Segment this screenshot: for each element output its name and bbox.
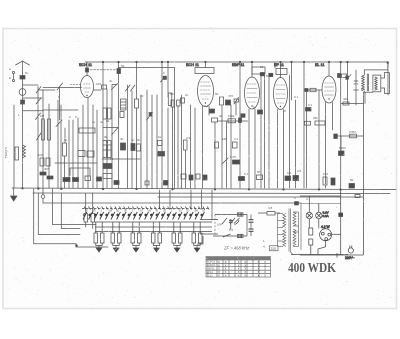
junction dots top bus (102, 61, 104, 63)
wire V5 riser (328, 62, 330, 76)
capacitor on riser (117, 69, 121, 74)
power section (300, 189, 363, 260)
resistor 400 near bus (338, 74, 341, 78)
wire (111, 85, 113, 188)
speaker cone (381, 73, 390, 94)
wire third lower bus (158, 196, 363, 198)
bottom row capacitor a (239, 177, 245, 181)
capacitor small (120, 112, 124, 118)
capacitor feedback (334, 134, 338, 139)
capacitor V3 right top b (269, 73, 273, 76)
wire across input (38, 89, 55, 91)
svg-text:40: 40 (120, 137, 124, 141)
blob bottom (97, 177, 102, 181)
svg-text:EBF 11: EBF 11 (232, 63, 244, 67)
resistor PS b (309, 239, 313, 245)
trafo primary winding (283, 214, 286, 247)
node terminal E (12, 79, 14, 81)
blob at switch top (163, 76, 166, 79)
svg-text:1,5: 1,5 (229, 228, 234, 232)
svg-text:220V~: 220V~ (345, 256, 354, 260)
svg-text:S-1051a: S-1051a (4, 147, 8, 159)
switch contact mid-left (56, 120, 62, 127)
svg-text:4.2 W: 4.2 W (321, 225, 330, 229)
svg-text:x: x (225, 274, 227, 278)
dial lamp (41, 195, 45, 199)
wire trafo to bottom bus (290, 252, 293, 255)
wire left stub L (197, 236, 203, 244)
bottom-left routing wires (34, 189, 108, 247)
svg-text:1M: 1M (222, 137, 227, 141)
wire right verticals (340, 62, 342, 189)
svg-text:1M: 1M (147, 209, 151, 213)
svg-text:4,: 4, (263, 245, 266, 249)
wire heater line (341, 103, 363, 105)
tube V2 internals (201, 82, 211, 99)
capacitor 50uF electrolytic (349, 184, 355, 189)
wire (177, 106, 179, 188)
svg-text:0.1: 0.1 (308, 103, 313, 107)
svg-text:x: x (218, 274, 220, 278)
resistor 100k horizontal (228, 119, 236, 123)
wire cluster verticals left tuning (64, 128, 66, 143)
wire bank rail 4 (95, 231, 212, 233)
tube V1 internals (84, 84, 91, 92)
svg-text:2n: 2n (185, 93, 189, 97)
voltage table (206, 257, 271, 278)
resistor R input a (42, 119, 45, 140)
bottom row capacitor b (285, 176, 291, 181)
capacitor 0.05 (233, 160, 240, 164)
tone capacitor column (355, 70, 357, 105)
mains plug Netz (348, 248, 353, 253)
coil box pair upper mid-left (103, 108, 107, 119)
switch contact near V5 (347, 75, 352, 80)
svg-text:0.5M: 0.5M (349, 130, 356, 134)
wire (48, 104, 50, 188)
capacitor coupling (305, 89, 308, 92)
wire screen line (218, 120, 248, 122)
wire V2 anode riser (205, 62, 207, 68)
svg-text:60: 60 (215, 92, 219, 96)
capacitor IF a (249, 219, 254, 221)
wire transformer top (364, 63, 388, 75)
resistor 4.8 (267, 212, 275, 216)
wire bottom PS bus (300, 254, 363, 256)
svg-text:3k: 3k (104, 135, 108, 139)
switch in IF box a (234, 218, 240, 224)
wire right bus drop to speaker (387, 62, 389, 95)
capacitor trimmer row left (79, 128, 95, 133)
svg-text:150: 150 (323, 172, 328, 176)
resistor R input b (48, 119, 51, 140)
grid box above V4 (276, 69, 287, 75)
svg-text:EL 11: EL 11 (315, 63, 325, 67)
svg-text:x: x (264, 274, 266, 278)
svg-text:EBF11: EBF11 (207, 267, 215, 271)
svg-text:600: 600 (38, 153, 43, 157)
coil groups below switch (94, 222, 202, 252)
svg-text:30: 30 (140, 94, 144, 98)
wire (161, 62, 163, 188)
svg-text:400: 400 (343, 97, 348, 101)
trafo core (288, 209, 290, 252)
switch contacts row (83, 212, 204, 220)
svg-text:ECH 11: ECH 11 (79, 63, 92, 67)
ground symbol main (13, 188, 15, 196)
svg-text:510: 510 (170, 92, 175, 96)
svg-text:LS: LS (361, 87, 365, 91)
wire taps right (293, 211, 299, 213)
wire V2 pins (202, 106, 204, 188)
scan speckle noise (5, 30, 395, 308)
switch diagonal left (37, 133, 42, 140)
svg-text:4x: 4x (100, 120, 104, 124)
svg-text:EL11: EL11 (207, 273, 213, 277)
svg-text:50: 50 (110, 157, 114, 161)
wire (214, 122, 216, 188)
top supply bus (85, 61, 388, 63)
capacitor 5000 (339, 151, 345, 156)
wire (118, 62, 120, 188)
svg-text:8n: 8n (137, 138, 141, 142)
svg-text:50: 50 (266, 74, 270, 78)
node bus right (387, 62, 389, 64)
junction dots on ground bus (22, 188, 24, 190)
coil L2 box (15, 147, 19, 160)
bottom row extra blobs (114, 181, 119, 185)
wire IF bottom (213, 235, 247, 237)
wire trafo taps left (278, 213, 284, 215)
wire rect tube down (318, 241, 326, 255)
resistor 30 left of bank (84, 214, 88, 223)
svg-text:0.05: 0.05 (230, 155, 236, 159)
wire (221, 106, 223, 188)
resistor 510 (168, 93, 172, 106)
svg-text:x: x (238, 274, 240, 278)
capacitor pair (177, 100, 181, 106)
wire (318, 90, 320, 188)
wire horizontal left low (55, 162, 97, 164)
node terminal A (12, 71, 14, 73)
wire (239, 62, 241, 188)
resistor IF a (220, 97, 224, 105)
resistor vertical mid (184, 140, 188, 150)
wire second lower bus (33, 192, 390, 195)
resistor mid vertical 1 (215, 142, 219, 148)
wire (167, 62, 169, 97)
svg-text:ECH11: ECH11 (207, 263, 216, 267)
capacitor wide b (103, 174, 112, 179)
wire antenna to switch (23, 84, 39, 86)
trimmer C variable (112, 84, 118, 90)
wire power top rail (300, 195, 341, 197)
trafo secondary winding (293, 212, 296, 246)
wire (85, 193, 87, 214)
antenna coil L1 (19, 89, 26, 96)
switch contact third (36, 113, 41, 120)
wire IF top (215, 214, 247, 216)
wire lamp feeds (308, 196, 310, 212)
resistor 0.5M (350, 134, 357, 138)
wire secondary rail (298, 212, 300, 247)
resistor grid stopper (310, 88, 316, 91)
speaker LS coil (373, 75, 381, 92)
svg-text:A: A (9, 67, 11, 71)
wire (64, 156, 66, 188)
wire jumper bracket (70, 168, 90, 176)
coil box pair lower mid-left with hatch (103, 141, 107, 158)
wire input horizontals (23, 97, 43, 99)
resistor 50 bottom (85, 176, 91, 181)
svg-text:5n: 5n (25, 71, 29, 75)
capacitor bottom-left pair 2 (47, 176, 53, 179)
lamp P2 (316, 212, 322, 218)
wire feedback line (335, 135, 363, 137)
capacitor 4uF (295, 202, 299, 206)
capacitor 470 (226, 100, 231, 105)
wire (230, 105, 232, 188)
svg-text:EF11: EF11 (207, 270, 214, 274)
wire (59, 87, 61, 121)
svg-text:ZF = 468 kHz: ZF = 468 kHz (223, 246, 250, 251)
wire heater rail long (43, 198, 301, 203)
switch S1 contact (36, 87, 41, 94)
wire AVC extension L (119, 68, 175, 190)
small box mid (158, 141, 163, 146)
svg-text:E: E (9, 76, 11, 80)
wire V4 pins (277, 110, 279, 189)
wire IF left boundary (214, 215, 216, 237)
node bottom-left (76, 245, 78, 247)
tiny annotation smudge texts (4, 64, 365, 213)
resistor hatched top (238, 213, 244, 216)
aux contact right of bank (222, 218, 227, 224)
bottom row resistor 50 (257, 175, 263, 180)
zigzag resistor on antenna line (23, 145, 26, 158)
wire rect tube to right (332, 233, 341, 235)
svg-text:0.1: 0.1 (244, 172, 249, 176)
capacitor 0.1 PS (339, 213, 343, 217)
svg-text:1M: 1M (108, 209, 112, 213)
svg-text:40: 40 (219, 114, 223, 118)
svg-text:470: 470 (228, 94, 233, 98)
wire switch drop (37, 87, 39, 189)
label boxed 467 (270, 246, 279, 251)
wire V1 grid input (43, 87, 82, 89)
svg-text:0.3A: 0.3A (323, 214, 329, 218)
grid box above V3 (252, 67, 265, 74)
grid stopper into V5 (304, 89, 322, 91)
capacitor bottom-left pair (40, 172, 46, 175)
svg-text:1M: 1M (40, 114, 45, 118)
blob diode load (258, 110, 263, 114)
svg-text:ECH11: ECH11 (207, 260, 216, 264)
tube V4 internals (276, 85, 285, 103)
wire V3 riser (251, 62, 253, 77)
svg-text:0.1: 0.1 (234, 137, 239, 141)
svg-text:50: 50 (257, 170, 261, 174)
svg-text:x: x (258, 274, 260, 278)
output transformer T1 winding (362, 75, 365, 91)
svg-text:3k: 3k (64, 138, 68, 142)
wire dashed AVC segment (70, 84, 82, 86)
svg-text:50: 50 (121, 64, 125, 68)
capacitor mid 0.1 (233, 142, 238, 148)
switch diagonal top-left area (57, 83, 63, 90)
capacitor blob (239, 118, 242, 123)
blob mid (158, 152, 165, 157)
wire antenna lead (22, 61, 24, 188)
capacitor pair mid b (131, 144, 135, 151)
lamp P1 (306, 212, 312, 218)
svg-text:400 WDK: 400 WDK (288, 261, 336, 276)
resistor PS a (309, 228, 313, 235)
svg-text:100: 100 (96, 82, 101, 86)
svg-text:1k: 1k (158, 135, 162, 139)
wire (102, 62, 104, 188)
wire (340, 136, 342, 155)
capacitor left of V2 (181, 98, 185, 103)
wire heater rail (301, 203, 341, 205)
blob below ant coil (21, 100, 25, 104)
tube V4 EF11 (274, 78, 288, 110)
rectifier tube AZ11 (320, 229, 332, 241)
tube V2 ECH11 (198, 76, 214, 107)
antenna (16, 61, 30, 65)
resistor 30 second (91, 214, 95, 223)
tube V5 EL11 (322, 76, 336, 103)
capacitor V3 right top a (260, 73, 264, 76)
wire bank top rail (82, 208, 210, 210)
wire horizontal left mid (43, 109, 78, 111)
wire IF right vertical (246, 215, 248, 237)
wire (13, 105, 15, 188)
capacitor V1 top (86, 68, 89, 72)
wire (260, 73, 262, 188)
wire V3 pins (248, 109, 250, 188)
capacitor Rk bypass (331, 178, 335, 185)
svg-text:ECH 11: ECH 11 (186, 63, 199, 67)
resistor 12k (305, 121, 311, 125)
diode switch contact (222, 158, 228, 164)
switch contact osc a (126, 85, 131, 91)
capacitor 0.1 left (306, 108, 312, 112)
wire V1 anode riser (86, 62, 88, 76)
tube V5 internals (325, 83, 334, 95)
resistor V2 bias (212, 118, 218, 122)
wire bank rail 2 (95, 221, 212, 223)
wire (258, 212, 267, 214)
wire tap ladder vertical (277, 214, 279, 247)
power transformer T2 (278, 202, 341, 255)
wire rails into IF box (200, 219, 218, 221)
IF filter unit (197, 212, 280, 245)
wire (136, 62, 138, 99)
svg-text:220: 220 (271, 247, 277, 251)
capacitor V2 cathode (210, 109, 215, 113)
switch in IF box b (223, 234, 231, 237)
capacitor bottom mid-left 2 (73, 178, 79, 182)
wire verticals 58 61 (57, 100, 59, 188)
wire verticals right of V4 (274, 62, 276, 68)
wire IF drop left (230, 224, 231, 229)
wire bank rail 3 (95, 226, 212, 228)
fuse symbol (355, 195, 360, 198)
svg-text:4x: 4x (92, 120, 96, 124)
switch contact top right (161, 76, 166, 82)
wire V1 side tap (94, 89, 102, 91)
svg-text:0.3: 0.3 (186, 136, 191, 140)
svg-text:25: 25 (241, 113, 245, 117)
svg-text:50: 50 (350, 178, 354, 182)
wire dashed AVC line (87, 69, 119, 71)
grid cap box above V2 (195, 68, 214, 74)
ground bus (12, 188, 396, 190)
wire speaker bottom link (364, 91, 373, 92)
svg-text:4.8: 4.8 (268, 206, 273, 210)
svg-text:1,: 1, (263, 239, 266, 243)
svg-text:x: x (244, 274, 246, 278)
small boxes 600 800 (40, 158, 44, 166)
wire (172, 107, 174, 188)
svg-text:0.1: 0.1 (294, 95, 299, 99)
bottom row left cluster blobs (181, 174, 186, 179)
tube V3 EBF11 (245, 77, 260, 109)
capacitor IF b (249, 228, 254, 230)
trimmer second row left (78, 151, 85, 157)
coil L3 with core (63, 143, 67, 156)
wire (340, 189, 342, 255)
capacitor (171, 100, 174, 107)
svg-text:5000: 5000 (339, 146, 346, 150)
wire input riser (42, 90, 44, 188)
svg-text:0.5: 0.5 (297, 169, 302, 173)
band switch assembly (82, 207, 235, 235)
resistor Rk bottom (323, 177, 327, 185)
svg-text:0.5: 0.5 (287, 171, 292, 175)
trimmer cap mid (230, 219, 232, 224)
wire contact drops (159, 190, 161, 209)
wire trafo bottom drop (364, 92, 366, 103)
svg-text:0.1: 0.1 (204, 104, 209, 108)
bottom row capacitor c (293, 176, 299, 181)
resistor hatched bottom (238, 234, 244, 237)
wire above model name (291, 254, 348, 256)
tube V1 ECH11 (81, 76, 94, 98)
wire (127, 85, 129, 188)
output transformer core (366, 74, 368, 91)
svg-text:4n: 4n (131, 138, 135, 142)
capacitor on 347 line (346, 76, 349, 79)
svg-text:1M: 1M (194, 209, 198, 213)
svg-text:10: 10 (260, 65, 264, 69)
svg-text:8k: 8k (106, 119, 110, 123)
switch contact osc b (131, 85, 136, 91)
switch S2 contact (36, 98, 41, 104)
switch row upper ticks (84, 207, 209, 210)
svg-text:10P: 10P (217, 223, 222, 227)
resistor Rk V5 (315, 121, 325, 125)
switch contact mid 2 (112, 128, 119, 136)
svg-text:800: 800 (45, 167, 50, 171)
capacitor near V3 (241, 114, 245, 118)
wire mid horizontals (103, 127, 118, 129)
wire left of V5 vertical (303, 62, 305, 188)
switch contact mid (147, 113, 153, 121)
oscillator coil L4 hatch (121, 99, 127, 110)
wire (185, 150, 187, 188)
